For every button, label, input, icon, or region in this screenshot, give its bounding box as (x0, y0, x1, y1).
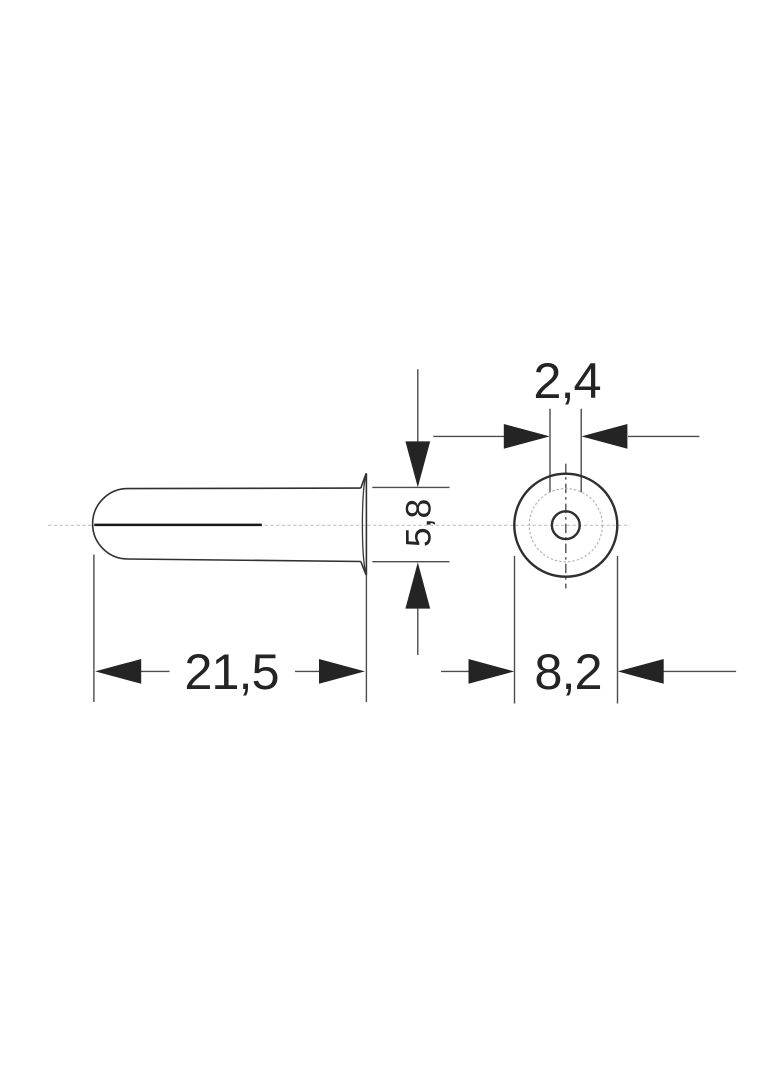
dim 2,4 line left (433, 435, 504, 437)
flange flare top (361, 473, 366, 488)
hidden circle (body dia 5,8) (529, 489, 602, 562)
dim 2,4 arrow left (504, 424, 550, 449)
vertical centerline (end view) (565, 464, 567, 589)
dim 5,8 extension line top (372, 486, 449, 488)
dim 21,5 arrow left (95, 659, 141, 684)
flange face line (365, 473, 367, 575)
dim 8,2 line left (441, 670, 470, 672)
dim 8,2 extension line right (617, 556, 619, 704)
dim 8,2 arrow left (469, 659, 515, 684)
flange rim arc (362, 474, 366, 575)
dim 2,4 extension line right (580, 409, 582, 493)
dim 5,8 arrow bottom (405, 562, 430, 608)
dim 2,4 arrow right (581, 424, 627, 449)
dim 5,8 arrow top (405, 441, 430, 487)
dim 21,5 extension line right (365, 575, 367, 702)
pin body outline (side view) (93, 488, 361, 561)
flange flare bottom (361, 562, 366, 576)
dim 8,2 line right (664, 670, 737, 672)
dim 21,5 line left segment (140, 670, 169, 672)
dim 8,2 arrow right (618, 659, 664, 684)
dim 5,8 line top (417, 369, 419, 442)
dim 21,5 arrow right (319, 659, 365, 684)
dim 21,5 extension line left (93, 555, 95, 703)
dim 8,2 extension line left (514, 556, 516, 704)
horizontal centerline (axis) (48, 524, 630, 526)
dim 5,8 line bottom (417, 608, 419, 655)
svg-text:5,8: 5,8 (399, 499, 439, 547)
dim 21,5 line right segment (295, 670, 320, 672)
svg-text:2,4: 2,4 (533, 352, 600, 409)
slot line (94, 524, 261, 527)
hole circle (dia 2,4) (552, 511, 580, 539)
svg-text:21,5: 21,5 (184, 643, 278, 700)
svg-text:8,2: 8,2 (534, 643, 601, 700)
outer circle (flange dia 8,2) (514, 474, 617, 577)
dim 5,8 extension line bottom (372, 561, 449, 563)
dim 2,4 extension line left (549, 409, 551, 493)
dim 2,4 line right (628, 435, 699, 437)
